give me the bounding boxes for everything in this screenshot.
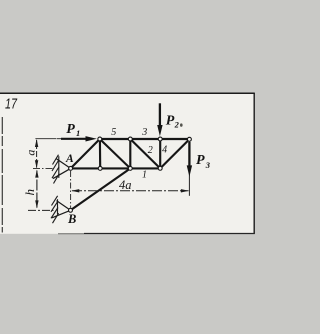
node B (69, 208, 73, 212)
dimension 4a left arrowhead (71, 189, 79, 192)
svg-text:2: 2 (174, 119, 180, 129)
dimension 4a right arrowhead (181, 189, 189, 192)
node B2 (128, 166, 132, 170)
B-level leader line (28, 209, 54, 211)
support A hatched wall (52, 155, 59, 184)
dimension a vertical line (36, 140, 38, 168)
dimension h bottom arrowhead (35, 200, 38, 208)
dimension a top arrowhead (35, 139, 38, 147)
svg-text:P: P (66, 122, 75, 137)
truss members (71, 139, 190, 210)
svg-text:4: 4 (162, 145, 167, 156)
vertical T2-B2 (129, 139, 131, 168)
node T2 (128, 137, 132, 141)
svg-text:2: 2 (148, 145, 153, 156)
svg-text:P: P (166, 114, 175, 129)
force P1 arrow (57, 136, 97, 141)
long diagonal B-B2 (71, 168, 131, 210)
frame right border (253, 93, 255, 234)
force P3 arrow (187, 142, 192, 177)
svg-text:3: 3 (205, 160, 211, 170)
dimension a leader tick (top, to P1 line) (35, 138, 56, 140)
diagonal T1-B2 (100, 139, 131, 168)
dimension h vertical line (36, 171, 38, 208)
bottom chord A-B3 (71, 167, 161, 169)
support A bracket links (53, 159, 71, 179)
dash-dot line from A down to B (70, 171, 72, 208)
diagonal A-T1 (71, 139, 100, 168)
dimension h top arrowhead (35, 170, 38, 178)
frame bottom border (84, 233, 255, 235)
svg-text:A: A (65, 153, 74, 165)
svg-text:a: a (24, 150, 38, 156)
svg-text:17: 17 (5, 96, 17, 113)
svg-text:3: 3 (141, 127, 147, 138)
figure box white interior (0, 93, 255, 234)
dimension a bottom arrowhead (35, 160, 38, 168)
ink speck (180, 123, 183, 126)
svg-text:P: P (196, 153, 205, 168)
diagonal B3-T4 (160, 139, 189, 168)
dimension 4a line (72, 190, 189, 192)
support B hatched wall (51, 196, 59, 223)
svg-text:h: h (22, 189, 37, 196)
node T3 (158, 137, 162, 141)
node T1 (98, 137, 102, 141)
svg-text:5: 5 (111, 127, 116, 138)
node B1 (98, 166, 102, 170)
svg-text:1: 1 (76, 128, 80, 138)
P3 extension line down to dimension (188, 142, 190, 196)
frame left border (faint dashed) (1, 117, 3, 233)
A-level leader line (33, 167, 53, 169)
svg-text:4a: 4a (119, 178, 132, 192)
top chord T1-T4 (100, 138, 190, 140)
vertical T1-B1 (99, 139, 101, 168)
force P2 arrow (157, 103, 162, 136)
svg-text:B: B (67, 212, 76, 226)
diagonal 2 T2-B3 (130, 139, 160, 168)
vertical 4 T3-B3 (159, 139, 161, 168)
node A (69, 166, 73, 170)
truss node circles (69, 137, 192, 212)
support B bracket links (52, 201, 71, 218)
node B3 (158, 166, 162, 170)
frame top border (0, 92, 255, 94)
node T4 (187, 137, 191, 141)
svg-text:1: 1 (142, 170, 147, 181)
